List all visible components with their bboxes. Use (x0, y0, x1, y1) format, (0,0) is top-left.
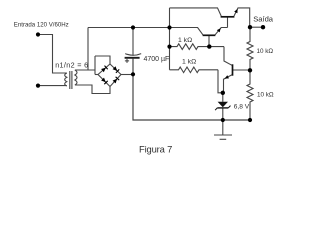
svg-text:1 kΩ: 1 kΩ (182, 58, 196, 65)
svg-text:10 kΩ: 10 kΩ (257, 48, 274, 55)
svg-text:4700 µF: 4700 µF (144, 56, 170, 63)
svg-text:1 kΩ: 1 kΩ (178, 37, 192, 44)
svg-text:Figura 7: Figura 7 (139, 143, 172, 154)
svg-text:n1/n2 = 6: n1/n2 = 6 (55, 60, 88, 69)
svg-text:Entrada 120 V/60Hz: Entrada 120 V/60Hz (14, 22, 69, 29)
svg-text:6,8 V: 6,8 V (234, 104, 250, 111)
svg-text:Saída: Saída (253, 14, 274, 23)
svg-text:10 kΩ: 10 kΩ (257, 92, 274, 99)
